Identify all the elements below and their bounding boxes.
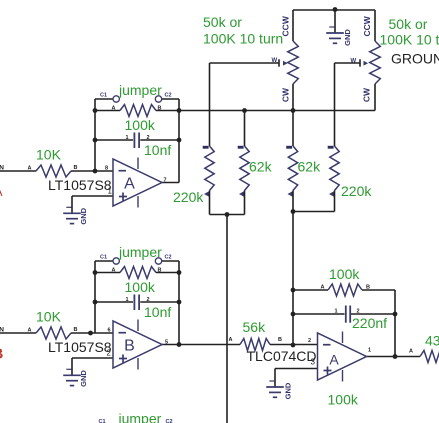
svg-text:10nf: 10nf	[144, 304, 171, 320]
svg-text:B: B	[158, 105, 162, 111]
svg-text:100k: 100k	[329, 266, 360, 282]
svg-text:1: 1	[126, 297, 129, 303]
svg-text:B: B	[124, 337, 135, 354]
svg-text:2: 2	[147, 135, 150, 141]
svg-text:A: A	[229, 337, 233, 343]
svg-text:W: W	[351, 59, 357, 65]
svg-text:C1: C1	[100, 255, 107, 261]
svg-text:jumper: jumper	[118, 411, 162, 423]
svg-text:C1: C1	[100, 93, 107, 99]
svg-text:43k: 43k	[425, 333, 439, 349]
svg-text:2: 2	[308, 338, 311, 344]
svg-text:CW: CW	[362, 87, 372, 102]
svg-text:CCW: CCW	[281, 15, 291, 36]
svg-text:100k: 100k	[125, 279, 156, 295]
svg-text:N: N	[0, 164, 4, 171]
svg-text:LT1057S8: LT1057S8	[48, 177, 112, 193]
svg-text:100K 10 turn: 100K 10 turn	[380, 32, 439, 48]
svg-text:GND: GND	[284, 382, 293, 399]
svg-text:GND: GND	[79, 207, 88, 224]
svg-text:62k: 62k	[249, 159, 273, 175]
svg-text:A: A	[28, 328, 32, 334]
svg-text:B: B	[158, 267, 162, 273]
svg-text:C2: C2	[165, 255, 172, 261]
svg-text:10nf: 10nf	[144, 142, 171, 158]
svg-text:CW: CW	[281, 87, 291, 102]
svg-text:N: N	[0, 326, 4, 333]
svg-text:3: 3	[311, 358, 316, 367]
svg-text:C1: C1	[99, 419, 106, 423]
svg-text:50k or: 50k or	[389, 16, 428, 32]
svg-text:A: A	[321, 285, 325, 291]
svg-text:1: 1	[335, 309, 338, 315]
svg-text:B: B	[278, 337, 282, 343]
svg-text:50k or: 50k or	[203, 14, 242, 30]
svg-text:A: A	[124, 175, 135, 192]
svg-text:220k: 220k	[173, 189, 204, 205]
svg-text:100k: 100k	[328, 392, 359, 408]
svg-text:A: A	[28, 166, 32, 172]
svg-text:A: A	[0, 185, 3, 199]
svg-text:1: 1	[368, 348, 371, 354]
svg-text:GND: GND	[79, 370, 88, 387]
svg-text:100K 10 turn: 100K 10 turn	[203, 31, 283, 47]
svg-text:LT1057S8: LT1057S8	[48, 339, 112, 355]
svg-text:56k: 56k	[243, 319, 267, 335]
svg-text:TLC074CD: TLC074CD	[247, 348, 317, 364]
svg-text:W: W	[272, 58, 278, 64]
svg-text:220nf: 220nf	[352, 315, 387, 331]
svg-text:62k: 62k	[298, 159, 322, 175]
svg-text:1: 1	[108, 187, 113, 196]
svg-text:GND: GND	[343, 29, 352, 46]
svg-text:7: 7	[164, 178, 167, 184]
svg-text:6: 6	[108, 327, 111, 333]
svg-text:B: B	[366, 285, 370, 291]
svg-text:B: B	[0, 346, 4, 363]
svg-text:10K: 10K	[36, 147, 62, 163]
svg-text:jumper: jumper	[118, 82, 162, 98]
svg-text:A: A	[112, 267, 116, 273]
svg-text:A: A	[329, 352, 339, 368]
svg-text:2: 2	[107, 349, 112, 358]
svg-text:A: A	[409, 349, 413, 355]
svg-text:CCW: CCW	[362, 15, 372, 36]
svg-text:2: 2	[357, 309, 360, 315]
svg-text:B: B	[74, 327, 78, 333]
svg-text:1: 1	[126, 135, 129, 141]
svg-text:100k: 100k	[125, 117, 156, 133]
svg-text:8: 8	[105, 165, 108, 171]
svg-text:10K: 10K	[36, 309, 62, 325]
svg-text:jumper: jumper	[118, 244, 162, 260]
svg-text:A: A	[112, 105, 116, 111]
svg-text:C2: C2	[165, 93, 172, 99]
svg-text:220k: 220k	[341, 183, 372, 199]
svg-text:GROUND: GROUND	[391, 51, 439, 67]
svg-text:2: 2	[147, 297, 150, 303]
svg-text:C2: C2	[166, 419, 173, 423]
svg-text:B: B	[74, 165, 78, 171]
svg-text:5: 5	[165, 340, 168, 346]
